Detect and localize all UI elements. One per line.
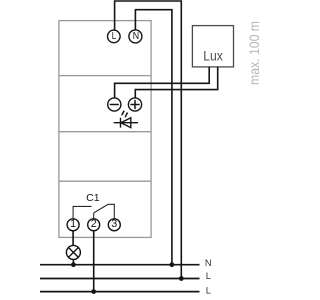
- svg-text:L: L: [206, 286, 211, 296]
- svg-text:1: 1: [70, 218, 76, 230]
- svg-text:L: L: [112, 31, 117, 42]
- svg-text:Lux: Lux: [203, 48, 223, 64]
- svg-text:N: N: [133, 31, 139, 42]
- svg-text:max. 100 m: max. 100 m: [247, 21, 262, 85]
- svg-text:N: N: [205, 258, 212, 268]
- svg-text:3: 3: [111, 218, 117, 230]
- svg-text:C1: C1: [86, 192, 100, 204]
- svg-text:2: 2: [91, 218, 97, 230]
- svg-text:L: L: [206, 271, 211, 281]
